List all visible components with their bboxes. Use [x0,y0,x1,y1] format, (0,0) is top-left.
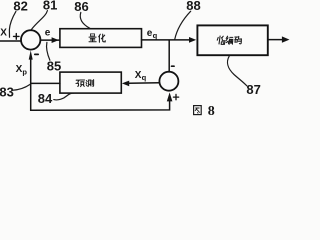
caption 图 8 : glyph 图 [194,106,202,115]
wire eq : quantizer to entropy coder [142,39,191,41]
svg-text:q: q [142,73,147,82]
svg-text:84: 84 [38,91,53,106]
glyph 化 (quantize char 2) [99,34,106,42]
svg-text:87: 87 [246,82,260,97]
wire branch down to adder 2 [168,41,170,72]
svg-text:86: 86 [74,0,88,14]
wire X input [0,40,21,42]
svg-text:83: 83 [0,84,14,99]
predictor box 84 [60,72,121,93]
plus sign at adder 2 bottom input [173,94,178,99]
leader from 84 to predictor box [54,93,74,100]
quantizer box 86 [60,29,142,48]
glyph 编 (entropy char 2) [226,36,233,44]
leader from 86 to quantizer box [80,12,90,28]
op summing junction 81 (circle) [21,30,40,49]
wire e : adder to quantizer [40,39,59,41]
wire output of entropy coder [268,39,283,41]
wire feedback vertical + bottom rail [31,58,170,111]
svg-text:X: X [0,28,7,39]
plus sign at summing junction 81 [14,34,20,40]
svg-text:p: p [22,67,27,76]
leader from 83 to Xp wire [12,84,30,90]
arrowhead into predictor [122,81,129,87]
leader from 82 to input wire [9,11,16,37]
svg-text:q: q [153,31,158,40]
arrowhead into entropy coder [189,37,196,43]
arrowhead into adder 1 bottom [29,50,33,59]
glyph 量 (quantize char 1) [89,34,96,42]
glyph 熵 (entropy char 1) [217,36,225,44]
arrowhead into quantizer [52,37,59,43]
glyph 测 (predict char 2) [86,80,94,87]
glyph 码 (entropy char 3) [235,36,242,43]
svg-text:8: 8 [208,104,215,119]
svg-text:85: 85 [47,59,61,74]
svg-text:e: e [45,28,51,39]
arrowhead output [282,36,290,42]
glyph 预 (predict char 1) [76,80,85,87]
svg-text:88: 88 [186,0,200,13]
arrowhead into adder 2 bottom [167,92,173,101]
op summing junction 2 (circle) [159,72,178,91]
minus sign at adder 2 top input [172,65,175,67]
leader from 81 to summing junction U81 [32,11,48,30]
leader from 88 to eq wire [175,11,191,39]
wire Xp : predictor to feedback line [31,82,60,84]
entropy coder box 87 [197,25,267,55]
leader from 85 up to e wire [47,42,50,60]
minus sign at subtractor input [35,53,38,55]
wire Xq : adder 2 to predictor [129,82,160,85]
svg-text:81: 81 [43,0,57,13]
leader from entropy box to 87 [228,56,247,86]
